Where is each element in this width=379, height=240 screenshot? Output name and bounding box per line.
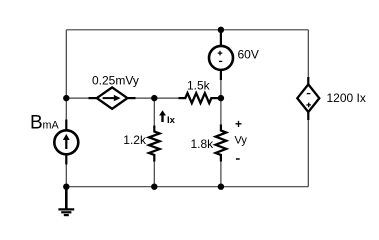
wire top rail to 60V source [220,30,222,46]
resistor R3 1.8k [216,131,227,155]
wire right rail upper [307,30,309,85]
node C (1.8k top junction) [218,95,224,101]
svg-text:60V: 60V [238,47,259,61]
svg-text:1200 Ix: 1200 Ix [327,91,366,105]
wire top rail [66,29,308,31]
wire B source bottom to ground node [65,154,67,187]
svg-text:1.8k: 1.8k [191,137,215,151]
lead 60V bottom [220,70,222,80]
wire resistor R1 bottom to bottom rail [153,155,155,187]
svg-text:0.25mVy: 0.25mVy [92,74,139,88]
wire 60V source to node C [220,70,222,98]
wire node C to resistor R3 top [220,98,222,130]
lead right diamond bottom [307,111,309,120]
svg-text:mA: mA [43,120,60,132]
node ground junction [63,184,69,190]
wire left rail upper [65,30,67,98]
lead R3 1.8k bottom [220,154,222,162]
svg-text:Vy: Vy [235,134,248,146]
lead R3 1.8k top [220,125,222,132]
resistor R1 1.2k [149,132,160,155]
current source B (circle with up arrow) [54,130,78,154]
wire resistor R2 right to node C [211,97,221,99]
node top (60V top junction) [218,27,224,33]
ground [58,187,74,215]
resistor R2 1.5k [185,93,211,103]
voltage source 60V [209,46,233,70]
wire dependent source right to node B [127,97,185,99]
lead right diamond top [307,77,309,85]
lead R2 1.5k left [179,97,187,99]
dependent source 0.25mVy (diamond) [97,87,128,108]
dependent source 1200 Ix (diamond) [297,84,319,112]
svg-text:1.2k: 1.2k [123,133,147,147]
current arrow Ix [159,110,166,122]
wire bottom rail [66,186,308,188]
wire resistor R3 bottom to bottom rail [220,155,222,187]
svg-text:Ix: Ix [167,115,176,126]
wire node B to resistor R1 top [153,98,155,131]
lead R1 1.2k top [153,126,155,133]
lead R2 1.5k right [210,97,219,99]
lead B source bottom [65,154,67,165]
svg-text:+: + [235,117,242,131]
lead dep source left [89,97,98,99]
node B (1.2k top junction) [151,95,157,101]
lead R1 1.2k bottom [153,154,155,162]
label minus Vy [236,158,240,160]
node 1.8k bottom junction [218,184,224,190]
wire node A to dependent source left [66,97,97,99]
node A (left mid junction) [63,95,69,101]
svg-text:B: B [30,113,43,134]
node 1.2k bottom junction [151,184,157,190]
svg-text:1.5k: 1.5k [187,78,211,92]
lead 60V top [220,31,222,47]
lead dep source right [126,97,135,99]
wire left node to B source top [65,98,67,131]
wire right rail lower [307,112,309,187]
lead B source top [65,120,67,131]
